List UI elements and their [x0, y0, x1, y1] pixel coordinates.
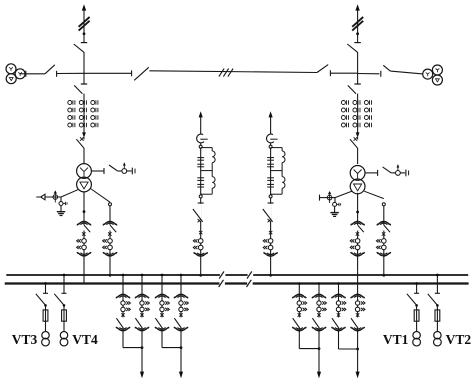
svg-text:VT4: VT4: [72, 332, 98, 347]
svg-text:VT1: VT1: [383, 332, 409, 347]
svg-text:VT2: VT2: [446, 332, 472, 347]
svg-text:VT3: VT3: [12, 332, 38, 347]
